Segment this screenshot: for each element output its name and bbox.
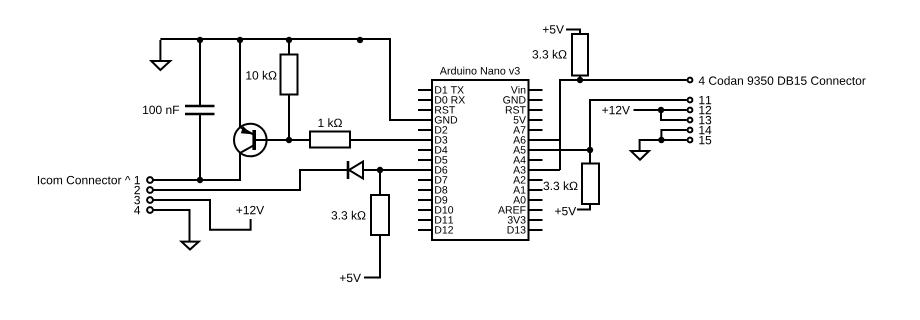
- wire (Icom pin4 to ground): [153, 210, 189, 242]
- resistor 3.3 kOhm (right lower): [543, 164, 599, 210]
- label pin 2: [134, 186, 139, 194]
- resistor 3.3 kOhm (middle): [331, 170, 389, 278]
- Codan connector pin 4: [688, 78, 693, 83]
- pin labels left (U1): [435, 86, 465, 233]
- node capacitor-pin1 junction: [197, 177, 203, 183]
- label pin 15: [699, 136, 711, 144]
- ground (top-left rail ground): [151, 40, 170, 70]
- label pin 12: [699, 106, 711, 114]
- wire (vertical bus A6/A3 to Codan pin 4 row): [560, 80, 687, 170]
- net +5V (top right): [543, 25, 564, 33]
- Icom connector pin 3: [147, 197, 153, 203]
- wire (pin 11 down to resistor): [590, 100, 687, 164]
- wire (transistor base to 10k/1k node): [256, 139, 310, 141]
- node pin15 junction: [658, 137, 664, 143]
- node rail-emitter junction: [237, 37, 243, 43]
- wire (Codan pin 14 down to pin 15 wire): [661, 130, 686, 140]
- Codan connector pin 15: [688, 138, 693, 143]
- net +5V (right lower): [555, 207, 576, 215]
- pin labels right (U1): [498, 86, 526, 234]
- wire (A3 to vertical bus): [529, 169, 561, 171]
- wire (GND rail from ground to Arduino GND pin): [160, 39, 418, 120]
- label pin 11: [699, 96, 711, 104]
- ground (Codan pins 14/15): [631, 151, 649, 160]
- wire (A6 to vertical bus): [529, 139, 561, 141]
- Icom connector pin 1: [147, 177, 153, 183]
- node Codan4-resistor junction: [577, 77, 583, 83]
- transistor PNP: [234, 40, 267, 180]
- resistor 10 kOhm: [246, 40, 297, 140]
- wire (Icom pin3 to +12V): [153, 200, 250, 230]
- label pin 4: [134, 206, 140, 214]
- wire (+12V to Codan pin 12): [634, 109, 687, 111]
- node pin12 junction: [658, 107, 664, 113]
- Codan connector pin 11: [688, 98, 693, 103]
- node diode-D6-resistor junction: [377, 167, 383, 173]
- label pin 13: [699, 116, 711, 125]
- pin stubs right (U1): [529, 90, 543, 230]
- net +5V (middle): [340, 274, 361, 282]
- capacitor 100 nF: [143, 40, 214, 180]
- wire (A5 to pin 11 bus): [529, 149, 591, 151]
- node A5 junction: [587, 147, 593, 153]
- node rail-capacitor junction: [197, 37, 203, 43]
- label Icom Connector pin 1: [38, 176, 140, 185]
- label pin 14: [699, 126, 711, 134]
- pin stubs left (U1): [418, 90, 432, 230]
- wire (Codan pin 15 to ground): [640, 140, 687, 151]
- Codan connector pin 14: [688, 128, 693, 133]
- wire (junction down to Codan pin 13): [661, 110, 687, 120]
- wire (Icom pin2 to diode cathode): [153, 170, 348, 190]
- Icom connector pin 2: [147, 187, 153, 193]
- net +12V (left): [236, 206, 264, 214]
- Icom connector pin 4: [147, 207, 153, 213]
- node rail-10k junction: [286, 37, 292, 43]
- wire (1k to Arduino D3): [350, 139, 418, 141]
- diode: [348, 161, 418, 179]
- label pin 3: [134, 196, 140, 205]
- ground (Icom pin4): [182, 242, 199, 250]
- Codan connector pin 12: [688, 108, 693, 113]
- net +12V (right): [602, 106, 630, 114]
- wire (Icom pin1 to transistor collector): [153, 153, 240, 180]
- node base junction: [286, 137, 292, 143]
- label Codan connector pin 4: [699, 76, 866, 85]
- resistor 1 kOhm: [310, 118, 350, 147]
- IC U1 Arduino Nano v3: [432, 67, 529, 240]
- node rail junction: [357, 37, 363, 43]
- resistor 3.3 kOhm (top right): [532, 30, 588, 81]
- Codan connector pin 13: [688, 118, 693, 123]
